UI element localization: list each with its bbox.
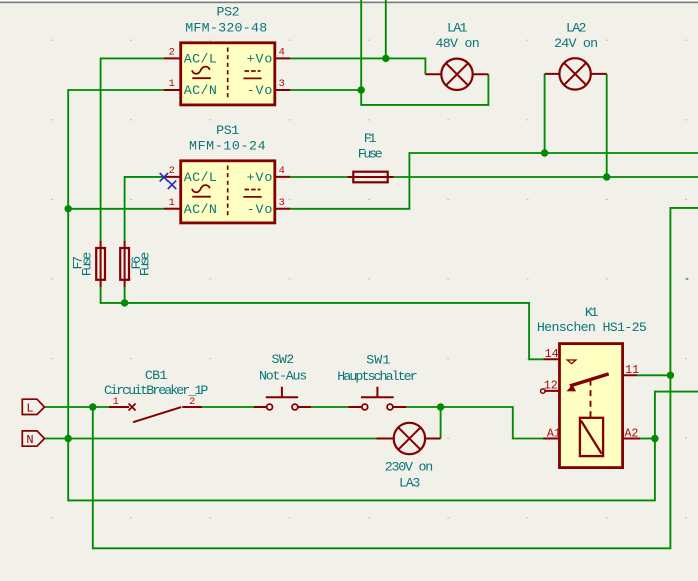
SW1 pin lines [348, 406, 406, 408]
K1 coil diagonal [581, 421, 602, 454]
CB1 contact cross [129, 404, 136, 411]
wire F6 bottom [124, 287, 126, 303]
power unit PS2 [169, 5, 285, 105]
wire neutral trunk [68, 90, 698, 500]
node pin11 junction [667, 372, 674, 379]
svg-text:1: 1 [169, 78, 175, 90]
fuse F7 [71, 248, 105, 280]
wire N input [45, 438, 377, 440]
node A2 junction [651, 435, 658, 442]
svg-text:CB1: CB1 [145, 368, 168, 383]
circuit breaker CB1 [104, 368, 208, 422]
svg-text:F1: F1 [364, 131, 377, 146]
svg-text:A1: A1 [547, 427, 561, 441]
svg-text:14: 14 [545, 347, 559, 361]
svg-text:11: 11 [625, 363, 639, 377]
node N junction [65, 435, 72, 442]
svg-text:4: 4 [279, 165, 285, 177]
F6 body [120, 248, 129, 280]
node -Vo48 junction [358, 86, 365, 93]
wire L input [45, 406, 110, 408]
node switched L junction [437, 403, 444, 410]
SW2 pin lines [254, 406, 312, 408]
node +Vo24 junction [603, 173, 610, 180]
F6 pin line [124, 241, 126, 287]
svg-text:Fuse: Fuse [79, 252, 94, 277]
svg-text:N: N [26, 433, 33, 447]
svg-text:3: 3 [279, 197, 285, 209]
wire F7 bottom to K1 pin14 [101, 287, 544, 359]
wire PS1 pin2 to F6 [125, 177, 164, 241]
svg-text:Fuse: Fuse [138, 252, 153, 277]
K1 pin lines [543, 359, 640, 438]
no-connect marks on PS1 pin2 [160, 173, 177, 189]
svg-text:1: 1 [169, 197, 175, 209]
LA3 pin lines [377, 438, 441, 440]
PS1 divider [227, 166, 229, 219]
SW1 contacts [362, 404, 368, 410]
svg-text:L: L [26, 401, 33, 415]
PS2 pin lines [164, 58, 290, 90]
K1 contact blade [570, 374, 609, 386]
PS1 AC symbol [192, 185, 210, 192]
F7 pin line [100, 241, 102, 287]
relay K1 [537, 305, 647, 468]
svg-text:48V on: 48V on [435, 36, 479, 51]
K1 actuation link [590, 380, 592, 418]
K1 body [560, 344, 623, 468]
lamp LA1 [435, 20, 479, 90]
svg-text:-Vo: -Vo [247, 202, 273, 217]
SW2 actuator [266, 387, 298, 397]
svg-text:LA3: LA3 [399, 476, 420, 491]
svg-text:Not-Aus: Not-Aus [259, 368, 307, 383]
svg-text:Henschen HS1-25: Henschen HS1-25 [537, 320, 647, 335]
wire F1 to right edge [394, 176, 698, 178]
wire LA3 right riser [440, 407, 442, 439]
svg-text:K1: K1 [585, 305, 598, 320]
svg-text:Fuse: Fuse [358, 147, 383, 162]
power unit PS1 [169, 123, 285, 223]
wire PS2 pin4 to LA1 left [290, 58, 425, 74]
PS1 body [181, 161, 275, 223]
fuse F1 [353, 131, 387, 182]
svg-text:A2: A2 [624, 427, 638, 441]
SW2 contacts [267, 404, 273, 410]
PS2 DC symbol [245, 70, 261, 72]
wire LA2 right drop [606, 74, 608, 177]
wire PS1 pin4 to F1 [290, 176, 347, 178]
F7 body [96, 248, 105, 280]
wire PS1 pin1 [68, 208, 164, 210]
global label L [22, 399, 44, 415]
svg-text:1: 1 [113, 396, 119, 408]
wire SW2 to SW1 [311, 406, 348, 408]
K1 pin 12 open end [541, 389, 545, 393]
svg-text:2: 2 [169, 165, 175, 177]
wire SW1 to K1 pinA1 [406, 407, 544, 439]
wire PS2 pin3 [290, 89, 361, 91]
svg-text:SW1: SW1 [366, 352, 390, 367]
wire PS1 pin3 loop to right edge [290, 153, 698, 209]
L label outline [22, 399, 44, 414]
F1 pin line [347, 176, 393, 178]
K1 blade arrowhead [566, 385, 576, 392]
node +Vo48 junction [382, 55, 389, 62]
wire switched line from right edge to L [93, 208, 698, 548]
wire LA2 left drop [544, 74, 546, 153]
svg-text:Hauptschalter: Hauptschalter [337, 369, 417, 384]
node L junction [89, 403, 96, 410]
svg-text:AC/N: AC/N [184, 202, 217, 217]
LA1 body [441, 59, 472, 90]
svg-text:PS2: PS2 [217, 5, 240, 20]
svg-text:+Vo: +Vo [247, 52, 273, 67]
wire K1 pin11 [637, 374, 670, 376]
wire top stub to +Vo [385, 0, 387, 58]
node -Vo24 junction [541, 149, 548, 156]
fuse F6 [120, 248, 153, 280]
switch SW2 [259, 352, 307, 410]
svg-text:PS1: PS1 [216, 123, 239, 138]
LA2 body [559, 58, 590, 89]
svg-text:+Vo: +Vo [247, 170, 273, 185]
svg-text:LA1: LA1 [447, 20, 468, 35]
K1 coil [580, 418, 603, 456]
global label N [22, 431, 44, 447]
F1 body [353, 172, 387, 183]
node AC/N junction [65, 205, 72, 212]
LA3 body [394, 423, 425, 454]
SW1 actuator [361, 387, 394, 397]
PS2 divider [227, 48, 229, 101]
wire PS2 pin2 to F7 [101, 58, 164, 240]
svg-text:MFM-10-24: MFM-10-24 [189, 138, 266, 153]
CB1 lever [133, 407, 181, 422]
wire LA1 right loop [361, 0, 488, 105]
CB1 pin lines [109, 406, 202, 408]
lamp LA2 [554, 20, 598, 89]
svg-text:LA2: LA2 [566, 20, 587, 35]
PS2 AC symbol [192, 67, 210, 74]
LA2 pin lines [545, 73, 607, 75]
wire K1 pinA2 [640, 438, 655, 440]
svg-text:3: 3 [279, 78, 285, 90]
svg-text:2: 2 [189, 396, 195, 408]
svg-text:4: 4 [279, 46, 285, 58]
PS1 DC symbol [245, 189, 261, 191]
svg-text:AC/L: AC/L [184, 52, 217, 67]
K1 contact marker [567, 360, 576, 364]
svg-text:AC/N: AC/N [184, 83, 217, 98]
svg-text:230V on: 230V on [385, 459, 433, 474]
PS1 pin lines [164, 177, 290, 209]
lamp LA3 [385, 423, 433, 491]
svg-text:24V on: 24V on [554, 36, 598, 51]
svg-text:12: 12 [544, 379, 558, 393]
switch SW1 [337, 352, 417, 410]
no-connect X at PS1 pin 2 [160, 173, 168, 181]
LA1 pin lines [425, 73, 488, 75]
svg-text:2: 2 [169, 46, 175, 58]
node fuse bottom junction [121, 299, 128, 306]
no-connect X offset [168, 181, 176, 189]
svg-text:AC/L: AC/L [184, 170, 217, 185]
svg-text:MFM-320-48: MFM-320-48 [185, 20, 267, 35]
svg-text:SW2: SW2 [272, 352, 295, 367]
PS2 body [181, 43, 275, 105]
wire CB1 to SW2 [202, 406, 253, 408]
N label outline [22, 431, 44, 446]
svg-text:-Vo: -Vo [247, 83, 273, 98]
